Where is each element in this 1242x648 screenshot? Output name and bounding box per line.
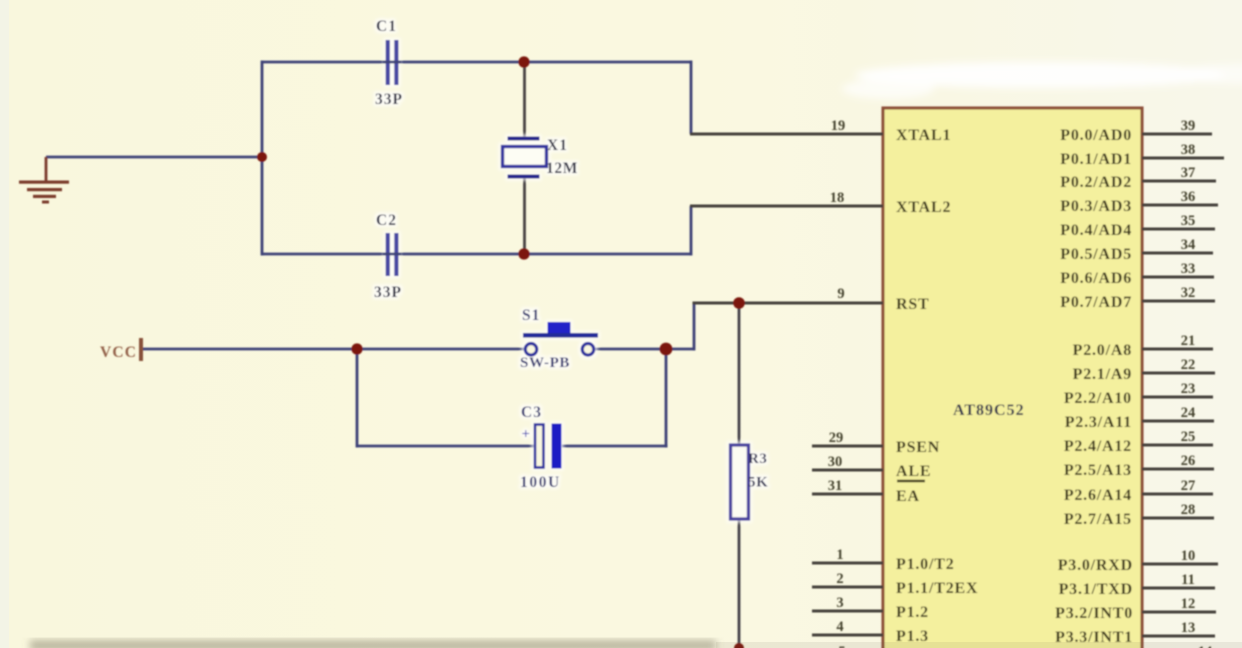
svg-text:P1.2: P1.2 — [896, 604, 929, 621]
ground symbol stub — [45, 157, 48, 182]
wire: C1 left lead — [262, 61, 385, 64]
U1 pin 1 line — [812, 561, 883, 564]
wire: C1 right lead to crystal node — [399, 61, 525, 64]
crystal X1 bottom plate — [508, 175, 540, 179]
svg-text:3: 3 — [836, 595, 843, 611]
U1 pin label ALE underline — [897, 480, 925, 483]
crystal X1 body — [503, 147, 547, 167]
U1 pin 32 line — [1142, 299, 1215, 302]
svg-text:100U: 100U — [520, 474, 561, 491]
svg-text:P0.6/AD6: P0.6/AD6 — [1060, 270, 1132, 287]
node: C2-crystal junction — [518, 248, 529, 259]
switch S1 left contact circle — [525, 344, 537, 356]
svg-text:P2.1/A9: P2.1/A9 — [1073, 366, 1132, 383]
svg-text:33P: 33P — [374, 284, 402, 301]
svg-text:C1: C1 — [376, 18, 397, 35]
svg-text:P3.1/TXD: P3.1/TXD — [1059, 581, 1133, 598]
svg-text:P0.5/AD5: P0.5/AD5 — [1060, 246, 1132, 263]
svg-text:39: 39 — [1181, 118, 1196, 134]
wire: R3 bottom lead — [738, 519, 741, 648]
svg-text:37: 37 — [1181, 165, 1196, 181]
svg-text:P1.1/T2EX: P1.1/T2EX — [896, 580, 978, 597]
svg-text:R3: R3 — [748, 451, 768, 467]
svg-text:1: 1 — [836, 547, 843, 563]
U1 pin 13 line — [1142, 634, 1215, 637]
wire: XTAL1 corner vertical — [690, 61, 693, 135]
U1 pin 4 line — [812, 633, 883, 636]
U1 pin 2 line — [812, 585, 883, 588]
capacitor C1 left plate — [386, 40, 390, 85]
svg-text:P3.2/INT0: P3.2/INT0 — [1055, 605, 1133, 622]
svg-text:34: 34 — [1181, 237, 1196, 253]
wire: crystal top lead — [523, 62, 526, 137]
wire: C2 node to XTAL2 corner — [525, 253, 692, 256]
U1 pin 24 line — [1142, 419, 1214, 422]
ground symbol bar 3 — [33, 195, 56, 198]
wire: C1 plates crossing stub — [383, 61, 401, 64]
svg-text:25: 25 — [1181, 429, 1196, 445]
svg-text:21: 21 — [1181, 333, 1196, 349]
svg-text:S1: S1 — [522, 307, 540, 324]
svg-text:29: 29 — [829, 430, 844, 446]
svg-text:P2.4/A12: P2.4/A12 — [1064, 438, 1132, 455]
capacitor C1 right plate — [394, 40, 398, 85]
svg-text:35: 35 — [1181, 213, 1196, 229]
capacitor C2 left plate — [386, 233, 390, 276]
svg-text:P0.7/AD7: P0.7/AD7 — [1060, 294, 1132, 311]
svg-text:5K: 5K — [748, 475, 768, 491]
svg-text:24: 24 — [1181, 405, 1196, 421]
wire: C3 right lead — [562, 445, 668, 448]
wire: C3 left lead — [356, 445, 537, 448]
svg-text:10: 10 — [1181, 548, 1196, 564]
svg-text:XTAL1: XTAL1 — [896, 127, 951, 144]
switch S1 right contact circle — [582, 344, 594, 356]
wire: left vertical rail C1 to C2 — [261, 61, 264, 256]
svg-text:26: 26 — [1181, 453, 1196, 469]
U1 pin 3 line — [812, 609, 883, 612]
svg-text:23: 23 — [1181, 381, 1196, 397]
svg-text:12M: 12M — [546, 160, 578, 177]
U1 pin 22 line — [1142, 371, 1215, 374]
node: VCC-C3 junction — [351, 343, 362, 354]
svg-text:28: 28 — [1181, 502, 1196, 518]
svg-text:P2.6/A14: P2.6/A14 — [1064, 487, 1132, 504]
U1 pin 30 line — [812, 468, 883, 471]
svg-text:P3.0/RXD: P3.0/RXD — [1058, 557, 1133, 574]
node: bottom edge junction — [734, 643, 744, 648]
svg-text:P0.3/AD3: P0.3/AD3 — [1060, 198, 1132, 215]
U1 pin 31 line — [812, 492, 883, 495]
U1 pin 11 line — [1142, 586, 1215, 589]
wire: C1 node to XTAL1 corner — [525, 61, 692, 64]
svg-text:31: 31 — [828, 478, 843, 494]
svg-text:RST: RST — [896, 296, 930, 313]
wire: VCC to switch — [143, 348, 526, 351]
ground symbol bar 4 — [42, 201, 49, 204]
U1 pin 23 line — [1142, 395, 1213, 398]
resistor R3 body — [731, 445, 749, 519]
wire: C2 plates crossing stub — [383, 253, 401, 256]
svg-text:XTAL2: XTAL2 — [896, 199, 951, 216]
svg-text:P0.4/AD4: P0.4/AD4 — [1060, 222, 1132, 239]
svg-text:18: 18 — [830, 190, 845, 206]
svg-text:P0.0/AD0: P0.0/AD0 — [1060, 127, 1132, 144]
U1 pin 39 line — [1142, 132, 1212, 135]
svg-text:32: 32 — [1181, 285, 1196, 301]
svg-text:C2: C2 — [376, 212, 397, 229]
U1 pin 29 line — [812, 444, 883, 447]
svg-text:P2.0/A8: P2.0/A8 — [1073, 342, 1132, 359]
svg-text:22: 22 — [1181, 357, 1196, 373]
VCC terminal bar — [139, 338, 143, 361]
wire: crystal bottom lead — [523, 177, 526, 254]
ground symbol bar 2 — [27, 188, 62, 191]
node: switch-RST junction — [660, 343, 673, 356]
wire: XTAL1 horizontal into U1 — [690, 132, 883, 135]
node: ground-rail junction — [257, 152, 267, 162]
capacitor C3 right plate — [552, 424, 562, 469]
wire: junction up to RST row — [693, 303, 696, 351]
svg-text:12: 12 — [1181, 596, 1196, 612]
svg-text:EA: EA — [896, 488, 920, 505]
svg-text:P1.0/T2: P1.0/T2 — [896, 556, 955, 573]
wire: R3 top lead — [738, 303, 741, 446]
svg-text:SW-PB: SW-PB — [520, 355, 570, 371]
U1 pin 28 line — [1142, 516, 1214, 519]
wire: VCC junction down to C3 row — [356, 349, 359, 448]
svg-text:ALE: ALE — [896, 463, 931, 480]
ground symbol bar 1 — [19, 181, 69, 184]
svg-text:+: + — [522, 427, 531, 443]
svg-text:36: 36 — [1181, 189, 1196, 205]
svg-text:33P: 33P — [375, 91, 403, 108]
switch S1 button hump — [548, 322, 571, 333]
capacitor C2 right plate — [394, 233, 398, 276]
U1 pin 25 line — [1142, 443, 1213, 446]
U1 pin 34 line — [1142, 251, 1213, 254]
U1 pin 36 line — [1142, 203, 1218, 206]
wire: XTAL2 horizontal into U1 — [690, 204, 883, 207]
node: C1-crystal junction — [518, 56, 529, 67]
svg-text:2: 2 — [836, 571, 843, 587]
svg-text:13: 13 — [1181, 620, 1196, 636]
crystal X1 top plate — [508, 137, 540, 141]
svg-text:C3: C3 — [521, 404, 542, 421]
U1 pin 10 line — [1142, 562, 1218, 565]
svg-text:30: 30 — [828, 454, 843, 470]
U1 pin 12 line — [1142, 610, 1216, 613]
capacitor C3 left plate — [535, 425, 544, 468]
wire: XTAL2 corner vertical — [690, 206, 693, 256]
wire: C2 right lead to crystal node — [399, 253, 525, 256]
wire: ground to left rail node — [46, 156, 262, 159]
svg-text:P2.7/A15: P2.7/A15 — [1064, 511, 1132, 528]
svg-text:38: 38 — [1181, 142, 1196, 158]
U1 pin 37 line — [1142, 179, 1216, 182]
wire: C2 left lead — [262, 253, 385, 256]
U1 pin 35 line — [1142, 227, 1215, 230]
node: RST junction at R3 — [733, 297, 745, 309]
svg-text:11: 11 — [1181, 572, 1195, 588]
svg-text:33: 33 — [1181, 261, 1196, 277]
switch S1 button cap bar — [523, 333, 598, 338]
svg-text:P2.3/A11: P2.3/A11 — [1065, 414, 1132, 431]
U1 pin 27 line — [1142, 492, 1213, 495]
wire: switch to RST junction — [593, 348, 695, 351]
IC U1 AT89C52 body — [883, 108, 1142, 648]
svg-text:9: 9 — [837, 286, 844, 302]
svg-text:AT89C52: AT89C52 — [953, 402, 1025, 419]
svg-text:27: 27 — [1181, 478, 1196, 494]
wire: RST horizontal into U1 — [693, 301, 884, 304]
U1 pin 26 line — [1142, 467, 1214, 470]
svg-text:P2.2/A10: P2.2/A10 — [1064, 390, 1132, 407]
svg-text:P2.5/A13: P2.5/A13 — [1064, 462, 1132, 479]
svg-text:X1: X1 — [547, 137, 568, 154]
svg-text:P0.1/AD1: P0.1/AD1 — [1060, 151, 1132, 168]
U1 pin 38 line — [1142, 156, 1224, 159]
svg-text:VCC: VCC — [100, 344, 137, 361]
svg-text:P0.2/AD2: P0.2/AD2 — [1060, 174, 1132, 191]
U1 pin 33 line — [1142, 275, 1214, 278]
wire: junction down to C3 right lead — [665, 349, 668, 448]
svg-text:19: 19 — [831, 118, 846, 134]
U1 pin 21 line — [1142, 347, 1213, 350]
svg-text:4: 4 — [836, 619, 843, 635]
svg-text:PSEN: PSEN — [896, 439, 940, 456]
